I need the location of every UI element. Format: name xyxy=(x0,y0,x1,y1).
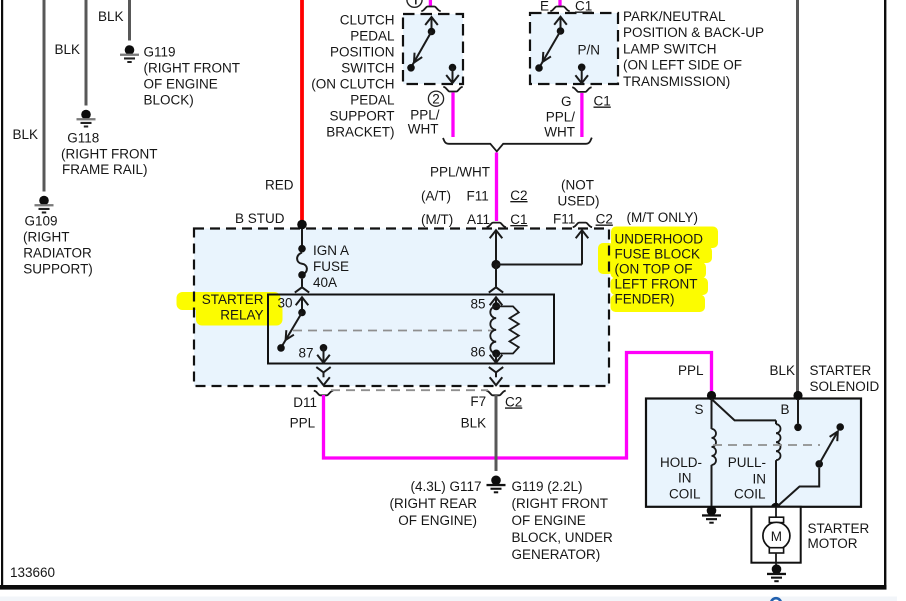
svg-text:STARTER: STARTER xyxy=(808,521,870,536)
svg-text:30: 30 xyxy=(278,296,293,311)
svg-text:(A/T): (A/T) xyxy=(421,189,451,204)
svg-text:POSITION & BACK-UP: POSITION & BACK-UP xyxy=(623,25,764,40)
svg-text:M: M xyxy=(771,529,782,544)
svg-text:(RIGHT REAR: (RIGHT REAR xyxy=(389,496,477,511)
svg-text:F11: F11 xyxy=(553,212,575,227)
svg-text:(RIGHT FRONT: (RIGHT FRONT xyxy=(61,146,158,161)
svg-text:SOLENOID: SOLENOID xyxy=(810,379,880,394)
svg-text:CLUTCH: CLUTCH xyxy=(340,13,395,28)
svg-text:C2: C2 xyxy=(505,394,522,409)
svg-text:PPL/: PPL/ xyxy=(546,110,576,125)
svg-text:WHT: WHT xyxy=(544,125,575,140)
svg-text:G119: G119 xyxy=(144,45,176,60)
svg-text:B: B xyxy=(780,402,789,417)
svg-text:BLOCK, UNDER: BLOCK, UNDER xyxy=(512,530,614,545)
svg-text:IN: IN xyxy=(753,472,767,487)
svg-text:87: 87 xyxy=(299,346,314,361)
svg-text:F7: F7 xyxy=(470,394,486,409)
svg-text:G: G xyxy=(561,94,572,109)
svg-text:PULL-: PULL- xyxy=(728,455,766,470)
svg-text:HOLD-: HOLD- xyxy=(660,455,702,470)
svg-text:LAMP SWITCH: LAMP SWITCH xyxy=(623,41,717,56)
svg-text:40A: 40A xyxy=(313,275,337,290)
svg-text:C1: C1 xyxy=(594,94,611,109)
svg-text:COIL: COIL xyxy=(669,487,701,502)
svg-text:PEDAL: PEDAL xyxy=(350,93,395,108)
svg-text:(RIGHT: (RIGHT xyxy=(23,230,70,245)
svg-text:G109: G109 xyxy=(25,214,58,229)
svg-text:(M/T ONLY): (M/T ONLY) xyxy=(627,210,699,225)
svg-text:(ON LEFT SIDE OF: (ON LEFT SIDE OF xyxy=(623,58,742,73)
svg-text:C1: C1 xyxy=(575,0,592,14)
svg-text:(RIGHT FRONT: (RIGHT FRONT xyxy=(512,496,609,511)
svg-text:BLK: BLK xyxy=(461,416,487,431)
svg-text:A11: A11 xyxy=(467,212,490,227)
svg-text:PPL/WHT: PPL/WHT xyxy=(430,165,490,180)
svg-text:SUPPORT): SUPPORT) xyxy=(23,262,93,277)
svg-text:86: 86 xyxy=(471,345,486,360)
svg-text:(ON TOP OF: (ON TOP OF xyxy=(615,262,693,277)
svg-text:(M/T): (M/T) xyxy=(421,212,453,227)
svg-text:BRACKET): BRACKET) xyxy=(326,125,394,140)
svg-text:RELAY: RELAY xyxy=(220,308,263,323)
svg-text:BLK: BLK xyxy=(54,42,80,57)
svg-text:(ON CLUTCH: (ON CLUTCH xyxy=(311,77,394,92)
svg-text:(NOT: (NOT xyxy=(561,178,594,193)
svg-text:133660: 133660 xyxy=(10,565,55,580)
svg-text:(RIGHT FRONT: (RIGHT FRONT xyxy=(144,61,241,76)
svg-text:P/N: P/N xyxy=(578,43,601,58)
svg-text:C1: C1 xyxy=(510,212,527,227)
svg-text:TRANSMISSION): TRANSMISSION) xyxy=(623,74,730,89)
svg-text:UNDERHOOD: UNDERHOOD xyxy=(615,232,704,247)
svg-text:SWITCH: SWITCH xyxy=(341,61,394,76)
svg-text:E: E xyxy=(540,0,549,14)
svg-text:FUSE: FUSE xyxy=(313,259,349,274)
svg-text:IN: IN xyxy=(678,471,692,486)
svg-text:PEDAL: PEDAL xyxy=(350,29,395,44)
svg-text:BLK: BLK xyxy=(12,127,38,142)
svg-text:(4.3L) G117: (4.3L) G117 xyxy=(410,479,481,494)
svg-text:PPL: PPL xyxy=(290,416,316,431)
svg-text:USED): USED) xyxy=(557,194,599,209)
svg-text:RADIATOR: RADIATOR xyxy=(23,246,92,261)
svg-text:PARK/NEUTRAL: PARK/NEUTRAL xyxy=(623,9,726,24)
svg-text:STARTER: STARTER xyxy=(202,292,264,307)
svg-text:85: 85 xyxy=(471,297,486,312)
svg-text:RED: RED xyxy=(265,178,294,193)
svg-text:OF ENGINE: OF ENGINE xyxy=(144,77,218,92)
svg-text:BLOCK): BLOCK) xyxy=(144,93,194,108)
svg-text:WHT: WHT xyxy=(408,122,439,137)
svg-text:C2: C2 xyxy=(596,212,613,227)
svg-text:MOTOR: MOTOR xyxy=(808,536,858,551)
svg-text:S: S xyxy=(694,402,703,417)
svg-text:PPL/: PPL/ xyxy=(410,108,440,123)
svg-text:D11: D11 xyxy=(293,395,317,410)
svg-text:SUPPORT: SUPPORT xyxy=(329,109,394,124)
svg-text:2: 2 xyxy=(432,91,440,106)
svg-text:G119 (2.2L): G119 (2.2L) xyxy=(512,479,583,494)
svg-text:BLK: BLK xyxy=(98,9,124,24)
svg-text:STARTER: STARTER xyxy=(810,363,872,378)
svg-text:FRAME RAIL): FRAME RAIL) xyxy=(62,162,148,177)
svg-text:FUSE BLOCK: FUSE BLOCK xyxy=(615,247,701,262)
svg-text:GENERATOR): GENERATOR) xyxy=(512,547,601,562)
svg-text:OF ENGINE: OF ENGINE xyxy=(512,513,586,528)
svg-text:OF ENGINE): OF ENGINE) xyxy=(398,513,477,528)
svg-text:C2: C2 xyxy=(510,188,527,203)
svg-text:IGN A: IGN A xyxy=(313,243,349,258)
svg-text:F11: F11 xyxy=(467,189,489,204)
svg-text:B STUD: B STUD xyxy=(235,211,285,226)
svg-text:BLK: BLK xyxy=(769,363,795,378)
svg-text:POSITION: POSITION xyxy=(330,45,395,60)
svg-text:PPL: PPL xyxy=(678,363,704,378)
svg-text:LEFT FRONT: LEFT FRONT xyxy=(615,277,698,292)
svg-text:COIL: COIL xyxy=(734,487,766,502)
svg-text:G118: G118 xyxy=(67,131,99,146)
svg-text:FENDER): FENDER) xyxy=(615,292,675,307)
